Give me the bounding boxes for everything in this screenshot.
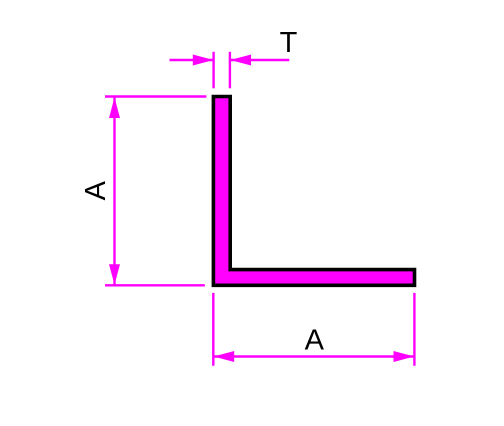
bottom A dimension: left arrow (points left) — [214, 351, 235, 362]
L-angle profile (magenta fill, black outline) — [213, 97, 414, 286]
svg-text:T: T — [280, 27, 298, 59]
bottom A dimension: dimension line — [213, 355, 414, 357]
bottom A dimension: right arrow (points right) — [394, 351, 415, 362]
left A dimension: top extension line — [105, 95, 206, 97]
T dimension: right extension line — [229, 52, 231, 89]
left A dimension: bottom extension line — [105, 284, 205, 286]
left A dimension: dimension line — [113, 97, 115, 285]
svg-text:A: A — [305, 325, 325, 357]
T dimension: left extension line — [212, 52, 214, 89]
svg-text:A: A — [80, 180, 112, 200]
bottom A dimension: left extension line — [212, 293, 214, 366]
T dimension: right tail line — [230, 59, 289, 61]
T dimension: left arrow (points right) — [193, 55, 214, 66]
left A dimension: top arrow (points up) — [109, 97, 120, 118]
T dimension: left tail line — [170, 59, 214, 61]
bottom A dimension: right extension line — [413, 293, 415, 366]
left A dimension: bottom arrow (points down) — [109, 264, 120, 285]
T dimension: right arrow (points left) — [230, 55, 251, 66]
